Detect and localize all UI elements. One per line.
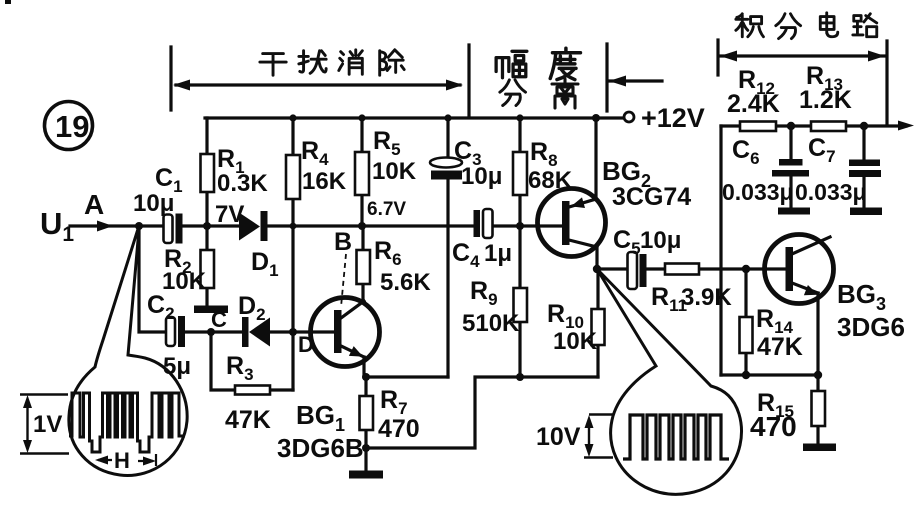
resistor R12 [727, 66, 780, 131]
capacitor C6 [722, 126, 809, 208]
svg-text:19: 19 [55, 109, 89, 144]
svg-text:47K: 47K [757, 333, 803, 361]
svg-text:5.6K: 5.6K [380, 269, 431, 296]
node C [207, 328, 215, 336]
section title interference-removal (hanzi gan) [260, 54, 286, 76]
node R8-main [516, 222, 524, 230]
svg-text:10K: 10K [162, 268, 207, 295]
capacitor C7 [795, 126, 881, 208]
diode D2 [238, 292, 270, 347]
svg-text:3DG6: 3DG6 [837, 312, 905, 342]
wire R10 vertical [596, 269, 599, 377]
node rail-R5 [358, 114, 365, 121]
dimension H inside balloon [95, 448, 156, 473]
node R15 top [814, 371, 822, 379]
node rail-R4 [289, 114, 296, 121]
output arrow [898, 121, 914, 131]
svg-text:16K: 16K [302, 168, 347, 195]
node A [135, 222, 143, 230]
node rail-BG2 [592, 114, 600, 122]
figure number 19 [45, 102, 93, 150]
dimension ticks integrator [716, 40, 719, 75]
capacitor C5 [613, 226, 681, 289]
svg-text:510K: 510K [462, 310, 520, 337]
resistor R1 [201, 145, 269, 197]
capacitor C3 [430, 137, 502, 190]
ground under C7 [850, 208, 882, 216]
node R4-main [290, 223, 297, 230]
resistor R5 [355, 127, 417, 195]
node BG3 base [742, 265, 750, 273]
hanzi li [552, 79, 578, 108]
wire C2 to node C to D2 [185, 330, 334, 333]
svg-text:+12V: +12V [641, 103, 705, 133]
dimension arrow integrator [720, 51, 885, 62]
section title amplitude (hanzi fu) [496, 51, 527, 77]
transistor BG2 [538, 118, 692, 269]
svg-text:1μ: 1μ [484, 240, 512, 267]
resistor R9 [462, 277, 527, 337]
svg-text:3.9K: 3.9K [681, 284, 732, 311]
dimension tick middle [467, 45, 470, 117]
node 7V [203, 222, 211, 230]
wire integrator top line [721, 124, 906, 127]
svg-text:10V: 10V [536, 423, 581, 451]
hanzi dian [820, 13, 837, 37]
dimension bracket 1V [20, 395, 69, 454]
svg-text:10μ: 10μ [461, 163, 502, 190]
node D [289, 328, 297, 336]
node C7 [860, 122, 868, 130]
resistor R2 [162, 245, 214, 295]
svg-text:1.2K: 1.2K [799, 86, 852, 114]
svg-text:10μ: 10μ [133, 190, 174, 217]
resistor R8 [513, 138, 573, 195]
dimension tick left [169, 47, 172, 110]
node R7 bottom [362, 444, 370, 452]
wire R8-R9 vertical [518, 118, 521, 377]
transistor BG1 [277, 298, 380, 464]
node BG1 emitter [362, 373, 370, 381]
scan speck top-left [5, 0, 11, 4]
wire +12V rail [205, 116, 623, 119]
resistor R4 [286, 137, 347, 199]
hanzi lu [853, 14, 877, 37]
resistor R3 [225, 352, 271, 434]
resistor R13 [799, 62, 852, 131]
svg-text:A: A [84, 189, 104, 220]
wire main signal line [70, 224, 562, 227]
dimension tick right [605, 44, 608, 111]
node rail-C3 [444, 114, 451, 121]
input arrow [97, 221, 113, 232]
ground under C6 [778, 208, 810, 215]
svg-text:10μ: 10μ [640, 227, 681, 254]
node C6 [787, 122, 795, 130]
capacitor C2 [147, 291, 191, 380]
wire R14 vertical [744, 269, 747, 375]
svg-text:0.033μ: 0.033μ [795, 179, 867, 205]
hanzi xiao [339, 50, 363, 74]
diode D1 [239, 211, 279, 280]
hanzi du [550, 48, 580, 79]
terminal +12V [624, 112, 634, 122]
transistor BG3 [765, 235, 905, 376]
wire node A down to C2 line [139, 226, 166, 332]
wire R6 vertical [361, 226, 364, 300]
svg-text:6.7V: 6.7V [367, 199, 406, 220]
svg-text:10K: 10K [553, 328, 598, 355]
waveform balloon left outline with tail to node A [69, 229, 187, 475]
hanzi chu [380, 50, 404, 75]
capacitor C4 [452, 209, 512, 271]
dimension arrow interference-removal [173, 80, 463, 91]
svg-text:3DG6B: 3DG6B [277, 433, 364, 463]
node rail-R8 [516, 114, 523, 121]
node R9 bottom [516, 373, 524, 381]
waveform sync pulses right [623, 415, 729, 459]
svg-text:1V: 1V [33, 411, 62, 438]
node BG2 collector [593, 265, 601, 273]
wire node C down to R3 loop [211, 332, 293, 390]
node R5-main [358, 222, 366, 230]
wire R1-R2 vertical [205, 118, 208, 306]
wire C3 vertical from rail through to emitter line [446, 118, 449, 377]
svg-text:0.3K: 0.3K [217, 170, 268, 197]
svg-text:10K: 10K [372, 158, 417, 185]
wire R4 vertical through main line down to node D and R3 [291, 118, 294, 390]
capacitor C1 [133, 164, 183, 244]
dimension bracket 10V [536, 415, 613, 458]
ground under R15 [803, 444, 836, 452]
svg-text:0.033μ: 0.033μ [722, 179, 794, 205]
svg-text:H: H [114, 448, 130, 473]
wire R7 emitter and bottom bus [366, 377, 598, 471]
svg-text:47K: 47K [225, 406, 271, 434]
svg-text:2.4K: 2.4K [727, 90, 780, 118]
resistor R11 [651, 264, 732, 316]
dimension arrow amplitude-separation right [609, 76, 662, 87]
resistor R10 [547, 300, 605, 355]
svg-text:470: 470 [750, 411, 797, 442]
ground under R2 [194, 306, 228, 314]
svg-text:470: 470 [378, 415, 420, 443]
svg-text:C: C [211, 307, 227, 332]
hanzi fen2 [776, 14, 801, 39]
resistor R6 [357, 237, 432, 296]
node R14 bottom [742, 371, 750, 379]
wire R15 [816, 375, 819, 445]
svg-text:5μ: 5μ [163, 353, 191, 380]
svg-text:3CG74: 3CG74 [612, 183, 691, 211]
wire integrator left vertical [719, 126, 722, 375]
svg-text:B: B [334, 228, 352, 256]
resistor R14 [740, 305, 803, 361]
resistor R15 [750, 389, 825, 442]
section title separation (hanzi fen) [500, 80, 526, 106]
resistor R7 [360, 386, 420, 443]
wire R5 vertical [360, 118, 363, 226]
ground under R7 [349, 471, 383, 479]
hanzi rao [299, 51, 326, 74]
wire C5 R11 to BG3 base [597, 267, 786, 270]
section title integrator (hanzi ji) [736, 14, 764, 37]
wire bottom bus right [721, 373, 818, 376]
waveform sync pulses left [69, 393, 185, 452]
waveform balloon right outline with tail to BG2 collector [597, 269, 741, 494]
